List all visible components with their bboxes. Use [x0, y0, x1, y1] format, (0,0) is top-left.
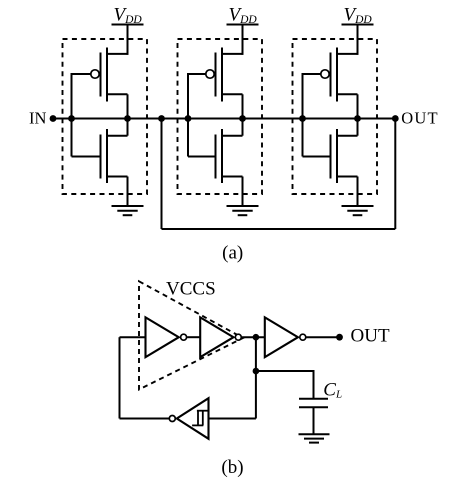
node OUT terminal (b) — [336, 334, 343, 341]
wire input to PMOS gate stage 1 — [72, 73, 91, 75]
wire V_DD to PMOS source stage 1 — [127, 25, 129, 55]
wire V_DD to PMOS source stage 2 — [242, 25, 244, 55]
wire U2 to U3 — [242, 336, 265, 338]
dashed VCCS boundary triangle — [139, 281, 243, 389]
Schmitt trigger inverter U4 — [169, 398, 208, 439]
svg-text:(b): (b) — [221, 457, 243, 478]
V_DD power rail stage 3 — [342, 24, 374, 26]
junction drain node stage 2 — [239, 115, 246, 122]
wire PMOS drain to output node stage 3 — [357, 94, 359, 118]
PMOS transistor M5 stage 3 — [321, 48, 358, 102]
wire gate bus stage 1 — [71, 73, 73, 157]
wire input to PMOS gate stage 2 — [188, 73, 206, 75]
PMOS transistor M1 stage 1 — [91, 48, 128, 102]
wire gate bus stage 3 — [302, 73, 304, 157]
wire signal rail IN to OUT — [53, 118, 395, 120]
wire NMOS source to ground stage 3 — [357, 177, 359, 207]
svg-text:OUT: OUT — [351, 326, 390, 347]
wire to load capacitor — [256, 370, 314, 372]
wire gate bus stage 2 — [187, 73, 189, 157]
wire feedback into Schmitt input — [209, 418, 256, 420]
V_DD power rail stage 1 — [112, 24, 144, 26]
wire Schmitt output to left rail — [120, 418, 169, 420]
wire NMOS drain to output node stage 2 — [242, 119, 244, 136]
wire input to PMOS gate stage 3 — [303, 73, 321, 75]
PMOS transistor M3 stage 2 — [206, 48, 243, 102]
wire feedback tap down — [161, 119, 163, 230]
wire U1 to U2 — [187, 336, 200, 338]
inverter U1 — [146, 317, 187, 357]
wire feedback bottom run — [162, 228, 396, 230]
hysteresis symbol — [192, 411, 207, 426]
wire feedback left rail — [119, 337, 121, 418]
wire NMOS source to ground stage 2 — [242, 177, 244, 207]
ground stage 2 — [227, 206, 259, 215]
wire NMOS drain to output node stage 1 — [127, 119, 129, 136]
dashed inverter cell box stage 3 — [293, 39, 378, 194]
capacitor C_L — [299, 399, 328, 407]
wire PMOS drain to output node stage 2 — [242, 94, 244, 118]
junction gate bus stage 2 — [185, 115, 192, 122]
inverter U3 — [265, 317, 306, 357]
junction gate bus stage 1 — [68, 115, 75, 122]
wire feedback up to OUT — [394, 119, 396, 230]
node IN terminal — [50, 115, 57, 122]
svg-text:VCCS: VCCS — [166, 279, 216, 300]
dashed inverter cell box stage 1 — [63, 39, 148, 194]
ground stage 3 — [342, 206, 374, 215]
wire input to NMOS gate stage 2 — [188, 156, 216, 158]
wire to inverter 1 input — [120, 336, 147, 338]
wire U3 to OUT — [306, 336, 339, 338]
junction feedback tap node — [158, 115, 165, 122]
wire NMOS source to ground stage 1 — [127, 177, 129, 207]
wire input to NMOS gate stage 3 — [303, 156, 331, 158]
junction cap tap — [253, 368, 260, 375]
ground (b) — [299, 434, 330, 442]
node OUT terminal — [392, 115, 399, 122]
NMOS transistor M4 stage 2 — [216, 129, 243, 183]
V_DD power rail stage 2 — [227, 24, 259, 26]
wire node X down to feedback — [255, 337, 257, 418]
inverter U2 — [200, 317, 241, 357]
NMOS transistor M6 stage 3 — [331, 129, 358, 183]
wire capacitor to ground — [313, 407, 315, 434]
svg-text:IN: IN — [29, 108, 46, 127]
svg-text:OUT: OUT — [401, 108, 439, 127]
junction gate bus stage 3 — [299, 115, 306, 122]
junction drain node stage 3 — [354, 115, 361, 122]
dashed inverter cell box stage 2 — [178, 39, 263, 194]
junction node X — [253, 334, 260, 341]
junction drain node stage 1 — [124, 115, 131, 122]
wire NMOS drain to output node stage 3 — [357, 119, 359, 136]
ground stage 1 — [112, 206, 144, 215]
wire V_DD to PMOS source stage 3 — [357, 25, 359, 55]
svg-text:(a): (a) — [222, 243, 243, 264]
NMOS transistor M2 stage 1 — [101, 129, 128, 183]
wire input to NMOS gate stage 1 — [72, 156, 101, 158]
wire PMOS drain to output node stage 1 — [127, 94, 129, 118]
